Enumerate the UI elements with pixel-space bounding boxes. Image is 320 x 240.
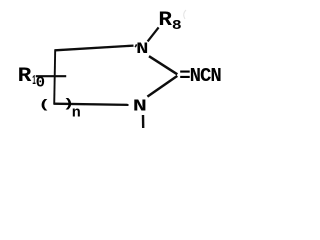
svg-text:8: 8 — [172, 18, 182, 34]
bond bottom N to C diagonal — [147, 76, 177, 97]
svg-text:N: N — [136, 40, 148, 58]
bond top N to C diagonal — [149, 56, 177, 74]
chemical structure: cyclic N-cyanoguanidine ring — [0, 0, 240, 146]
svg-text:0: 0 — [36, 74, 45, 91]
svg-text:n: n — [72, 105, 81, 122]
faint scan artifact curl — [184, 10, 186, 19]
svg-text:N: N — [133, 97, 147, 116]
bond N-methyl vertical — [142, 115, 145, 128]
svg-text:=NCN: =NCN — [179, 65, 221, 87]
speck comma near top N — [135, 44, 136, 47]
wire left vertical ring side — [54, 49, 55, 104]
svg-text:R: R — [18, 65, 33, 88]
wire top horizontal N to left corner — [55, 46, 133, 51]
wire bottom horizontal corner to N — [54, 104, 129, 105]
bond N to R8 diagonal — [148, 27, 159, 41]
svg-text:R: R — [158, 9, 172, 32]
bond R10 tick crossing ring — [36, 75, 66, 77]
svg-text:(: ( — [38, 98, 50, 112]
